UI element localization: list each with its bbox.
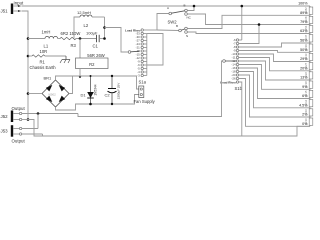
- wire BR1 right vertex stub: [69, 76, 73, 94]
- wire LC right rail: [104, 17, 106, 39]
- wire J52 pin1 to J53 pin1: [37, 114, 39, 129]
- wire S1b contact1 riser to 100% rail: [239, 6, 242, 40]
- node junction D1 anode: [89, 75, 92, 105]
- svg-text:100μF: 100μF: [86, 30, 98, 35]
- svg-text:0R15: 0R15: [304, 90, 308, 97]
- node junction L1 tap: [27, 37, 30, 40]
- node tap label 89%: [300, 11, 308, 15]
- capacitor C2 2200uF 25V: [105, 76, 121, 104]
- wire S1b contact3 to ladder rail: [239, 43, 310, 47]
- svg-text:56R 26W: 56R 26W: [87, 53, 105, 58]
- wire SW2 bottom throw NC to 63% rail: [187, 32, 310, 34]
- ground chassis earth symbol: [30, 56, 71, 70]
- svg-text:B: B: [176, 24, 178, 28]
- svg-text:Input: Input: [14, 0, 25, 5]
- node tap label 9%: [302, 85, 308, 89]
- switch S1a pole: [128, 51, 139, 54]
- node tap label 100%: [298, 2, 308, 6]
- svg-text:N: N: [186, 34, 188, 38]
- wire BR1 positive rail: [56, 76, 140, 89]
- node junction C2: [111, 75, 113, 105]
- resistor R3 6R2 150W: [58, 31, 97, 48]
- svg-text:J51: J51: [1, 8, 9, 13]
- resistor ladder R20 0R15: [304, 89, 313, 98]
- connector J51 (Input): [1, 0, 25, 14]
- svg-text:0R68: 0R68: [304, 16, 308, 23]
- svg-text:-3: -3: [137, 74, 140, 78]
- wire J53 pin2 to bottom rail: [42, 134, 44, 136]
- wire S1b contact4 to ladder rail: [239, 51, 310, 53]
- node junction R2 bottom: [79, 76, 81, 78]
- wire S1b pole to output via return line: [78, 61, 223, 117]
- svg-text:0R10: 0R10: [304, 118, 308, 125]
- node tap label 20%: [300, 66, 308, 70]
- node tap label 79%: [300, 20, 308, 24]
- svg-text:0R33: 0R33: [304, 53, 308, 60]
- svg-text:Load Rheo: Load Rheo: [125, 28, 141, 32]
- wire S1b contact11 to ladder rail: [239, 75, 310, 117]
- node tap label 56%: [300, 39, 308, 43]
- node junction contact1 100% rail: [241, 5, 244, 8]
- svg-text:Output: Output: [12, 139, 26, 144]
- wire SW2 bottom throw B to 89% rail: [187, 15, 310, 28]
- resistor ladder R17 0R27: [304, 62, 313, 71]
- svg-text:0R82: 0R82: [304, 7, 308, 14]
- svg-text:0R39: 0R39: [304, 44, 308, 51]
- svg-text:L1: L1: [44, 43, 49, 48]
- svg-text:1N5344: 1N5344: [94, 84, 98, 95]
- node tap label 29%: [300, 57, 308, 61]
- switch label S1b: [235, 86, 243, 91]
- svg-text:10R: 10R: [40, 49, 48, 54]
- wire top rail from J51 pin1 to ladder 100% rail: [22, 5, 311, 7]
- svg-text:Output: Output: [12, 106, 26, 111]
- wire S1b contact6 to ladder rail: [239, 58, 310, 71]
- svg-text:6R2 150W: 6R2 150W: [61, 31, 81, 36]
- wire S1b contact9 to ladder rail: [239, 68, 310, 99]
- wire S1b contact2 to 79% rail: [239, 25, 259, 44]
- node label Load Rheo (S1a): [125, 28, 141, 32]
- svg-text:R1: R1: [40, 59, 46, 64]
- wire S1b contact5 to ladder rail: [239, 54, 310, 62]
- capacitor C1 100uF: [86, 30, 105, 48]
- resistor ladder R13 0R56: [304, 25, 313, 34]
- svg-text:C2: C2: [105, 93, 111, 98]
- node junction R1 tap: [27, 55, 30, 58]
- resistor ladder R16 0R33: [304, 52, 313, 61]
- wire SW2 top throw NC to 79% rail: [187, 14, 310, 25]
- resistor ladder R12 0R68: [304, 15, 313, 24]
- svg-text:B: B: [184, 3, 186, 7]
- resistor ladder R21 0R12: [304, 99, 313, 108]
- wire BR1 AC input from left bus: [28, 93, 42, 95]
- svg-text:R2: R2: [89, 62, 95, 67]
- svg-text:Fan Supply: Fan Supply: [134, 99, 156, 104]
- node tap label 6%: [302, 94, 308, 98]
- wire S1b contact12 to ladder rail: [239, 79, 310, 127]
- wire BR1 negative rail: [56, 95, 140, 111]
- svg-text:L2: L2: [84, 23, 89, 28]
- switch S1b pole: [223, 60, 236, 63]
- svg-text:J52: J52: [1, 114, 9, 119]
- svg-text:0R27: 0R27: [304, 62, 308, 69]
- switch label SW2: [168, 20, 178, 25]
- connector fan supply header: [134, 86, 156, 104]
- svg-text:KB02: KB02: [49, 93, 57, 97]
- switch SW2 pole B (bottom): [176, 24, 188, 38]
- svg-text:12.5mH: 12.5mH: [77, 10, 91, 15]
- node junction contact2 79% rail: [258, 23, 261, 26]
- svg-text:0R12: 0R12: [304, 99, 308, 106]
- svg-text:C1: C1: [93, 44, 99, 49]
- node junction J52 pin1: [37, 112, 40, 115]
- node tap label 2%: [302, 113, 308, 117]
- svg-text:R3: R3: [71, 43, 77, 48]
- switch S1b contacts: [231, 38, 238, 83]
- svg-text:0R56: 0R56: [304, 25, 308, 32]
- node LC output junction: [103, 26, 106, 40]
- svg-text:Chassis Earth: Chassis Earth: [30, 65, 57, 70]
- inductor L1 1mH: [28, 29, 58, 48]
- wire S1a link loop to contact 11: [147, 34, 163, 66]
- connector J52 Output: [1, 106, 39, 122]
- svg-text:D1: D1: [81, 93, 87, 98]
- svg-text:0R10: 0R10: [304, 109, 308, 116]
- svg-text:2200μF 25V: 2200μF 25V: [116, 83, 120, 99]
- resistor ladder R18 0R22: [304, 71, 313, 80]
- node junction SW2-B 100% rail: [193, 5, 196, 8]
- wire S1b contact8 to ladder rail: [239, 65, 310, 90]
- node tap label 50%: [300, 48, 308, 52]
- svg-text:J53: J53: [1, 128, 9, 133]
- wire to S1a pole: [105, 28, 129, 53]
- node tap label 63%: [300, 29, 308, 33]
- wire SW2 top throw B to 100% rail: [187, 6, 194, 11]
- wire S1a contact1 to SW2 poles: [157, 14, 179, 31]
- svg-text:S1a: S1a: [139, 80, 147, 85]
- connector J53 Output: [1, 125, 43, 143]
- node tap label 4.5%: [299, 103, 308, 107]
- bridge rectifier BR1: [42, 75, 69, 107]
- wire J51 pin2 down left bus: [22, 11, 29, 120]
- switch label S1a: [139, 80, 147, 85]
- switch S1a contacts: [136, 29, 157, 78]
- resistor R2 56R 26W: [76, 39, 109, 77]
- wire S1a common bus: [146, 34, 148, 76]
- inductor L2 12.5mH parallel branch: [74, 10, 105, 38]
- wire S1b contact13 (Load Rheo) to 0% rail: [239, 82, 242, 136]
- wire output hot rail: [38, 113, 78, 115]
- svg-text:0R22: 0R22: [304, 72, 308, 79]
- resistor ladder R14 0R47: [304, 34, 313, 44]
- svg-text:0R47: 0R47: [304, 34, 308, 41]
- svg-text:100%: 100%: [298, 2, 308, 6]
- node tap label 13%: [300, 76, 308, 80]
- resistor ladder R11 0R82: [304, 6, 313, 15]
- node junction J52 pin2: [27, 118, 30, 121]
- resistor ladder R15 0R39: [304, 43, 313, 52]
- svg-text:BR1: BR1: [44, 75, 53, 80]
- svg-text:A: A: [167, 6, 169, 10]
- switch SW2 pole A (top): [167, 3, 192, 19]
- wire S1b contact10 to ladder rail: [239, 72, 310, 108]
- node junction R2 tap: [79, 37, 82, 40]
- wire common to bottom rail: [28, 120, 310, 137]
- node tap label 0%: [302, 122, 308, 126]
- svg-text:Load Rheo: Load Rheo: [220, 80, 236, 84]
- resistor R1 10R to chassis: [28, 49, 66, 65]
- svg-text:0R18: 0R18: [304, 81, 308, 88]
- resistor ladder R22 0R10: [304, 108, 313, 117]
- node label Load Rheo (S1b): [220, 80, 236, 84]
- resistor ladder R19 0R18: [304, 80, 313, 89]
- resistor ladder R23 0R10: [304, 117, 313, 126]
- svg-text:1mH: 1mH: [42, 29, 51, 34]
- wire S1b contact7 to ladder rail: [239, 61, 310, 80]
- zener diode D1 1N5344: [81, 76, 98, 104]
- node junction BR1 tap: [27, 92, 30, 95]
